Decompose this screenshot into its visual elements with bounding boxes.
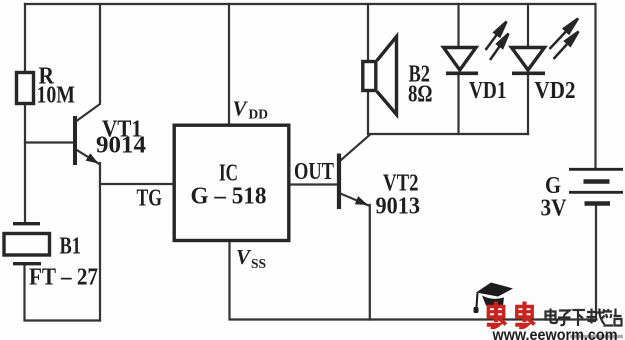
svg-text:10M: 10M [37,82,76,109]
svg-text:SS: SS [251,256,266,271]
svg-text:www.eeworm.com: www.eeworm.com [492,327,618,340]
svg-text:V: V [233,97,249,121]
svg-text:9013: 9013 [376,193,421,220]
svg-text:DD: DD [249,107,269,122]
svg-text:3V: 3V [541,195,567,222]
svg-text:OUT: OUT [294,158,334,185]
svg-text:VD2: VD2 [535,77,576,104]
svg-text:FT – 27: FT – 27 [29,264,98,291]
svg-text:9014: 9014 [96,132,146,159]
svg-text:8Ω: 8Ω [408,81,433,108]
svg-text:VD1: VD1 [469,77,507,104]
svg-text:V: V [236,245,252,269]
svg-text:TG: TG [137,185,163,212]
svg-text:G – 518: G – 518 [191,183,267,210]
svg-text:B1: B1 [60,233,82,260]
